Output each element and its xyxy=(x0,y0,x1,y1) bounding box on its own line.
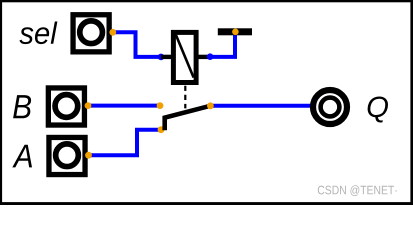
node common bar xyxy=(232,29,239,36)
node switch contact A xyxy=(158,126,165,133)
relay coil K1 xyxy=(161,32,211,82)
junction relay coil left xyxy=(158,54,165,61)
node switch output xyxy=(207,102,214,109)
wire B to switch contact xyxy=(88,104,160,108)
node sel pin xyxy=(109,29,116,36)
label A xyxy=(12,145,32,168)
relay common terminal bar xyxy=(218,28,252,35)
label sel xyxy=(19,22,57,45)
output pin Q xyxy=(313,90,347,124)
wire A to switch contact xyxy=(89,130,162,156)
wire relay coil to common bar xyxy=(210,35,235,57)
input pin A xyxy=(49,137,85,174)
node B pin xyxy=(85,102,92,109)
wire switch to output Q xyxy=(210,104,313,108)
label B xyxy=(13,95,31,118)
dashed link coil to lever xyxy=(184,86,186,109)
node switch contact B xyxy=(157,102,164,109)
junction relay coil right xyxy=(207,53,214,60)
input pin sel xyxy=(73,15,109,52)
input pin B xyxy=(48,88,84,125)
relay switch lever xyxy=(165,106,211,130)
label Q xyxy=(368,97,388,123)
wire sel pin to relay coil xyxy=(113,32,161,57)
node A pin xyxy=(85,152,92,159)
watermark xyxy=(318,185,397,196)
